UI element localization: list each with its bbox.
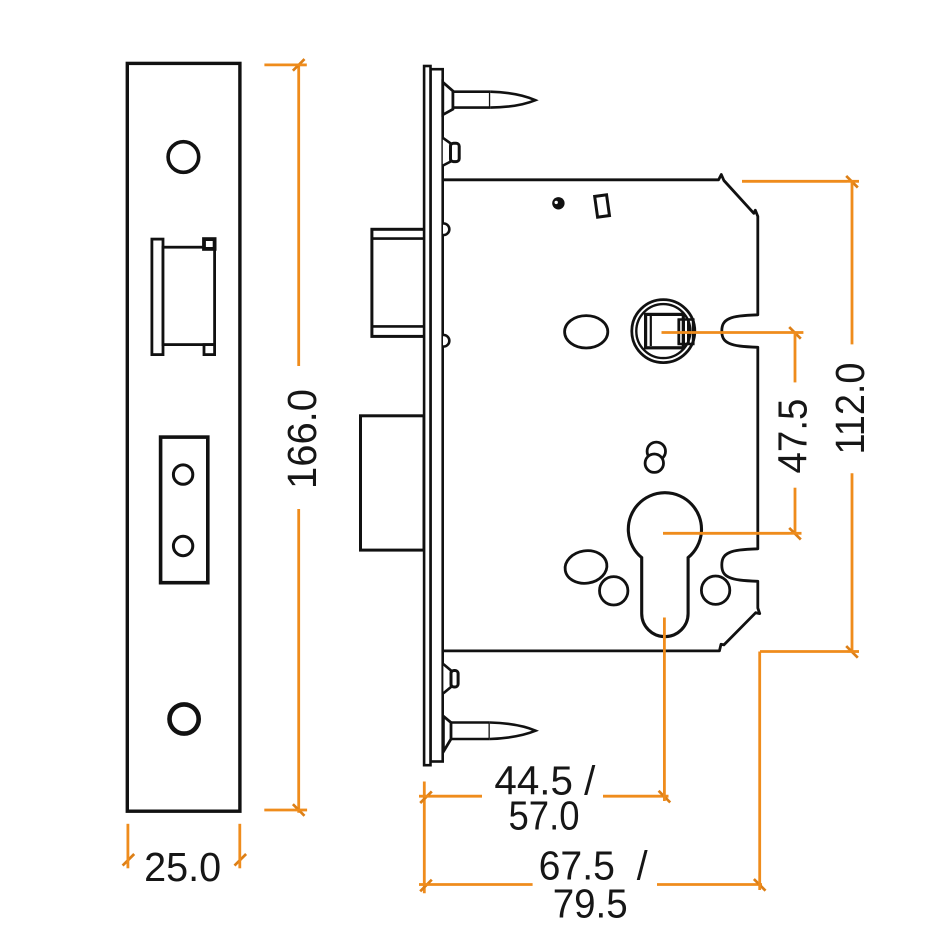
faceplate front view outline	[127, 63, 240, 811]
lock case outline	[443, 175, 760, 651]
forend back plate	[431, 69, 443, 761]
capsule detail lower circle	[645, 454, 663, 472]
faceplate bottom screw hole	[170, 704, 199, 733]
spindle hub outer circle	[632, 300, 695, 363]
oval hole left of euro cylinder	[563, 548, 610, 587]
spindle hub inner circle	[636, 304, 690, 358]
latch opening left bar	[152, 239, 163, 355]
forend front plate	[424, 66, 430, 765]
dimension 44.5/57.0 left extension line	[423, 782, 426, 894]
dimension 67.5/79.5 line left segment	[429, 883, 533, 886]
top fixing screw shank	[453, 92, 490, 108]
dimension 112.0 top tick	[742, 180, 847, 183]
dimension 166.0 vertical line	[297, 65, 300, 366]
svg-text:25.0: 25.0	[144, 844, 221, 890]
dimension 44.5/57.0 line left segment	[429, 795, 482, 798]
euro cylinder keyhole	[628, 493, 701, 637]
latch bolt lower edge line	[372, 325, 425, 328]
dimension 67.5/79.5 case back extension line	[758, 652, 761, 879]
small circle right of euro	[701, 576, 729, 604]
latch opening top-right tab	[204, 239, 215, 249]
latch opening bottom-right tab	[204, 345, 215, 355]
dimension 112.0 bottom tick	[760, 650, 847, 653]
dimension 25.0 right tick	[238, 824, 241, 856]
dimension 47.5 vertical line	[794, 333, 797, 383]
dimension 44.5/57.0 line right segment	[603, 795, 669, 798]
dimension 67.5/79.5 line right segment	[657, 883, 762, 886]
screw plate lower hole	[173, 536, 192, 555]
svg-text:57.0: 57.0	[509, 793, 580, 839]
bottom stud	[443, 664, 451, 693]
case small rivet dot	[552, 197, 564, 209]
dimension 47.5 top leader from spindle	[662, 331, 791, 334]
top fixing screw tip	[490, 92, 535, 108]
spindle spring hatch bars	[677, 319, 680, 345]
spindle square inner line	[650, 316, 652, 346]
forend pin upper	[443, 224, 449, 236]
bottom fixing screw shank	[451, 723, 490, 740]
bottom fixing screw head	[443, 716, 451, 752]
latch bolt	[372, 229, 425, 336]
case small tilted rectangle detail	[595, 195, 610, 217]
bottom fixing screw tip	[490, 723, 536, 740]
dimension 112.0 vertical line	[851, 181, 854, 344]
faceplate top screw hole	[168, 142, 199, 173]
screw plate upper hole	[173, 465, 192, 484]
svg-text:79.5: 79.5	[553, 881, 628, 927]
spindle square follower	[646, 314, 684, 347]
faceplate screw plate	[161, 437, 208, 583]
latch bolt upper edge line	[372, 237, 425, 240]
capsule detail upper circle	[647, 442, 665, 460]
svg-text:47.5: 47.5	[770, 399, 816, 474]
deadbolt	[361, 416, 425, 550]
small circle lower left of euro	[600, 577, 628, 605]
dimension 166.0 bottom tick	[264, 809, 295, 812]
svg-text:166.0: 166.0	[279, 389, 325, 489]
svg-text:112.0: 112.0	[827, 363, 873, 455]
latch opening main rectangle	[163, 247, 215, 344]
dimension 166.0 top tick	[264, 64, 295, 67]
spindle spring hatch top/bottom joints	[678, 318, 695, 320]
top fixing screw head	[443, 82, 453, 115]
top stud	[443, 138, 451, 166]
dimension 44.5/57.0 euro centre line	[663, 618, 666, 791]
dimension 47.5 bottom leader from euro centre	[663, 532, 790, 535]
case oval hole left of spindle	[565, 316, 608, 348]
dimension 25.0 left tick	[127, 824, 130, 856]
forend pin lower	[443, 335, 449, 347]
